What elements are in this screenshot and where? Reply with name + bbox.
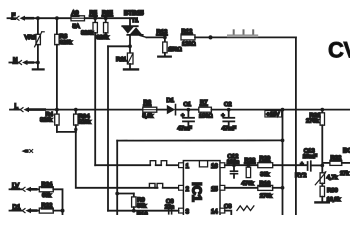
node F-VR1 [36,16,40,20]
label R29 33k [260,156,271,178]
svg-text:270k: 270k [260,193,272,199]
label R4 820k [40,112,54,123]
svg-text:R12: R12 [182,29,193,35]
svg-text:270k: 270k [306,119,319,125]
node F-R5 [93,16,97,20]
node R94 bottom [74,128,77,131]
wire R9 feed [117,193,134,195]
label R32 27k [331,155,350,176]
ground R30 [315,197,328,203]
svg-text:VR1: VR1 [25,35,36,41]
resistor R5 [93,18,97,165]
trimmer RY2 [315,165,326,184]
jumper bumps pin1 [150,161,178,166]
thermistor zigzag [237,206,254,211]
label C6 22n [165,199,174,211]
node module top right [281,139,285,143]
svg-text:R24: R24 [42,182,54,188]
svg-text:120Ω: 120Ω [182,42,196,48]
node L-R94 [74,108,78,112]
svg-text:+15V: +15V [266,112,279,118]
label R94 820k [79,114,91,125]
resistor R32 [322,160,350,165]
svg-text:+: + [300,161,303,167]
orphan connector mark [21,149,32,153]
svg-text:L: L [15,103,19,110]
pin 3 [179,208,190,215]
svg-text:47mF: 47mF [178,126,193,132]
node F-R95 [104,16,108,20]
svg-text:R9: R9 [137,197,145,203]
R11 inner diagonal [128,54,132,62]
resistor R24 [39,187,62,211]
svg-text:LV: LV [12,183,20,190]
svg-text:D1: D1 [167,98,175,104]
varistor VR1 [35,18,45,62]
node R9 bottom [132,209,136,213]
svg-text:470k: 470k [242,181,254,187]
wire module top edge [117,139,282,141]
svg-text:BTB15: BTB15 [124,10,144,17]
connector N [9,60,38,65]
label R9 56k [137,197,146,209]
pin 14 [211,208,225,215]
resistor R11 [124,46,138,69]
wire +15V rail [229,109,350,111]
node R9 feed [115,192,119,196]
label R6 5,6k [143,100,154,119]
svg-text:R7: R7 [200,100,208,106]
resistor R31 [320,108,324,166]
connector F [8,16,72,21]
label A9 5A [72,11,80,31]
N termination [33,63,44,70]
connector L [10,107,143,112]
svg-text:R30: R30 [327,188,339,194]
svg-text:R29: R29 [260,156,271,162]
svg-text:A9: A9 [72,11,79,17]
label R16 270k [260,181,273,200]
svg-text:47mF: 47mF [222,126,237,132]
label R31 270k [306,113,320,124]
wire pin16 row [225,164,308,166]
svg-text:820k: 820k [81,31,93,37]
wire heater-return down [295,37,297,215]
connector LV [10,187,40,192]
pin 15 [211,185,225,192]
resistor R12 [181,35,211,40]
resistor R3 [55,18,59,109]
label R24 68k [42,182,54,199]
svg-text:820k: 820k [97,35,109,41]
svg-text:33k: 33k [260,172,269,178]
svg-text:27k: 27k [340,171,349,177]
svg-text:F: F [12,13,16,20]
svg-text:BC: BC [343,148,350,155]
triac T1 BTB15 [122,18,165,46]
diode D1 [167,105,189,115]
pin 1 [179,163,190,170]
resistor R6 [143,107,167,112]
resistor R30 [320,183,324,196]
capacitor C1 [181,108,194,126]
svg-text:C1: C1 [184,102,192,108]
svg-text:T1: T1 [132,18,139,24]
svg-text:180Ω: 180Ω [199,113,213,119]
fuse A9 [71,16,85,21]
label +15V box [265,111,282,118]
svg-text:68k: 68k [42,193,51,199]
node N-VR1 [36,61,40,65]
svg-text:C8: C8 [224,204,232,210]
svg-text:56k: 56k [137,204,146,210]
svg-text:820k: 820k [79,119,91,125]
wire R94 down to pin2 row [76,132,158,188]
IC1 chip [183,161,220,218]
svg-text:14: 14 [211,210,218,215]
wire heater [211,36,296,38]
wire gate-left [108,45,130,47]
capacitor C2 [221,108,234,126]
svg-text:16: 16 [211,164,218,170]
node gate [128,44,132,48]
capacitor C6 [169,208,172,214]
node L-R4 [55,108,59,112]
svg-text:5A: 5A [73,24,80,30]
wire module left edge [116,141,118,215]
wire pin14 [225,211,232,215]
svg-text:N: N [13,57,17,64]
svg-text:D1: D1 [13,204,21,211]
svg-text:15: 15 [211,187,218,193]
resistor R7 [188,107,228,112]
svg-text:IC1: IC1 [190,182,204,202]
svg-text:820k: 820k [60,40,72,46]
svg-text:820k: 820k [40,118,52,124]
resistor R28 [246,163,250,177]
node C13-RY2 [320,164,324,168]
connector D1 input [10,208,40,213]
resistor R4 [55,110,59,132]
resistor R9 [132,194,136,211]
node heater-left [208,35,212,39]
label R3 820k [60,34,72,46]
wire pin15 row [225,187,258,189]
wire F rail after fuse [85,17,131,19]
pin 2 [179,185,190,192]
svg-text:10mF: 10mF [303,154,318,160]
svg-text:C2: C2 [224,102,232,108]
svg-text:RY2: RY2 [295,173,306,179]
capacitor C12 [231,163,238,178]
resistor R94 [74,110,78,132]
wire pin2 bumps [149,183,178,187]
node R22-R24 [61,209,65,213]
svg-text:5,6k: 5,6k [143,113,154,119]
label C12 100n [227,154,239,166]
resistor R29 [258,163,273,168]
svg-text:R6: R6 [144,100,152,106]
label R30 16,9k [327,188,341,203]
svg-text:150Ω: 150Ω [168,47,182,53]
svg-text:100n: 100n [227,160,239,166]
resistor R13 [158,36,171,57]
svg-text:R16: R16 [260,181,272,187]
wire pin1 row [95,164,150,166]
resistor R16 [258,185,285,190]
svg-text:R13: R13 [157,30,169,36]
node +15V right [281,108,285,112]
svg-text:R22: R22 [42,203,53,209]
wire pin3 row [108,210,179,212]
resistor R22 [39,208,62,213]
wire module right edge [282,110,284,215]
svg-text:4,7k: 4,7k [327,175,338,181]
wire R4-R94 bottom [57,131,76,133]
wire vertical x108 [107,46,109,210]
capacitor C13 [300,161,322,171]
label C13 10mF [303,148,318,160]
svg-text:R11: R11 [116,57,126,63]
svg-text:R5: R5 [90,11,98,17]
svg-text:22n: 22n [165,204,174,210]
svg-text:R32: R32 [331,155,342,161]
svg-text:CV: CV [328,38,350,63]
wire R22 down [62,211,64,215]
heater element bar [227,29,258,37]
svg-text:R28: R28 [245,158,257,164]
resistor R95 [104,18,108,36]
svg-text:R10: R10 [137,212,149,215]
pin 16 [211,163,225,170]
node F-R3 [55,16,59,20]
svg-text:R95: R95 [102,11,114,17]
